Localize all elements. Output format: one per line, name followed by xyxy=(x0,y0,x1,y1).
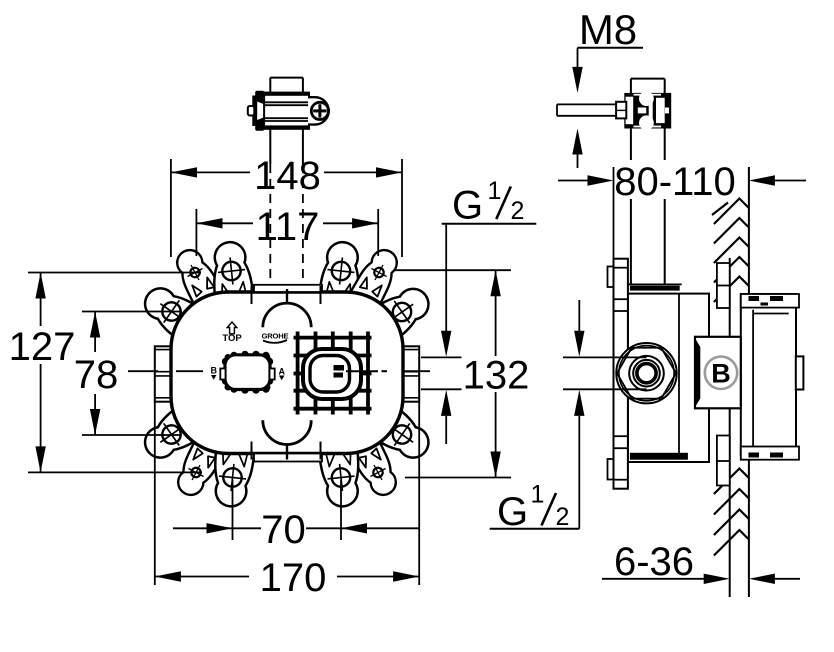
svg-text:148: 148 xyxy=(254,154,321,198)
top parting ticks xyxy=(251,286,253,304)
svg-text:6-36: 6-36 xyxy=(614,540,694,584)
svg-text:170: 170 xyxy=(260,556,327,600)
wall hatching bottom xyxy=(714,469,749,556)
supply pipe (front, above body) xyxy=(270,78,303,285)
G1/2 socket seen from side: nut and rings xyxy=(616,343,676,403)
supply pipe (side) xyxy=(630,79,632,284)
svg-text:1: 1 xyxy=(488,177,502,205)
body bottom detail xyxy=(630,453,688,460)
mounting tab L7 (bottom-left inner) xyxy=(210,440,257,509)
side lugs xyxy=(220,369,225,380)
ring leader line xyxy=(346,370,378,372)
spout ring outer xyxy=(303,349,361,399)
side socket G1/2 mini dimension xyxy=(563,300,647,529)
protective grid xyxy=(294,332,372,415)
TOP arrow symbol xyxy=(227,322,237,334)
pipe clamp (side) with M8 bolt xyxy=(557,91,671,130)
dim 170 xyxy=(155,402,419,600)
mounting tab S2 (small hole, top-right outer) xyxy=(351,244,404,306)
dim 6-36 xyxy=(602,540,800,584)
rough-in body outline xyxy=(171,292,403,454)
mounting tab L2 (top-right inner) xyxy=(317,240,364,309)
svg-text:2: 2 xyxy=(556,503,570,531)
svg-text:G: G xyxy=(452,184,483,228)
right G1/2 connection stub xyxy=(402,346,419,401)
box inner lines xyxy=(752,310,754,447)
side body main block xyxy=(628,294,709,462)
svg-text:A: A xyxy=(279,367,286,377)
svg-text:TOP: TOP xyxy=(222,333,242,344)
svg-text:GROHE: GROHE xyxy=(262,332,289,341)
dim 148 xyxy=(171,154,402,257)
svg-text:70: 70 xyxy=(261,508,306,552)
mounting tab L6 (right lower 45deg) xyxy=(361,397,437,467)
svg-text:117: 117 xyxy=(256,205,320,249)
wall tabs (plaster guard lugs) xyxy=(717,263,730,308)
label G 1/2 (top, for front stub) xyxy=(442,177,537,331)
wall finished-surface line xyxy=(729,258,731,597)
svg-text:M8: M8 xyxy=(579,6,637,53)
hidden pipe lines (dashed) xyxy=(269,164,271,285)
M8 nut xyxy=(616,102,626,119)
GROHE logo xyxy=(262,332,289,343)
control rosette (B/A feature) xyxy=(211,351,286,394)
svg-text:80-110: 80-110 xyxy=(614,160,736,204)
dim M8 xyxy=(572,6,643,168)
top lip xyxy=(254,285,322,292)
bottom parting ticks xyxy=(251,442,253,460)
mounting tab L1 (top-left inner) xyxy=(209,240,256,309)
mounting tab L4 (right upper 45deg) xyxy=(361,279,437,349)
right notch xyxy=(796,356,804,389)
pipe base xyxy=(628,283,682,285)
mounting tab L3 (left upper 45deg) xyxy=(136,279,212,349)
svg-text:132: 132 xyxy=(463,354,530,398)
mounting tab L5 (left lower 45deg) xyxy=(136,397,212,467)
dim 70 xyxy=(173,480,419,552)
mounting tab S4 (small hole, bottom-right outer) xyxy=(350,439,403,501)
clamp left bracket xyxy=(256,93,264,129)
circled B label xyxy=(705,357,737,389)
label G 1/2 (bottom, for side socket) xyxy=(490,480,580,534)
flange plate xyxy=(608,267,615,288)
bottom lip xyxy=(254,454,322,462)
bottom inner arch xyxy=(263,420,311,444)
B-box (function block) xyxy=(695,337,741,409)
phillips screw xyxy=(311,102,328,119)
spout ring inner xyxy=(310,356,350,393)
mounting tab S1 (small hole, top-left outer) xyxy=(170,244,223,306)
front stub G1/2 mini dimension xyxy=(421,331,462,444)
svg-text:B: B xyxy=(711,359,731,389)
left G1/2 connection stub xyxy=(155,346,172,401)
svg-text:127: 127 xyxy=(9,325,76,369)
recessed box behind wall xyxy=(741,294,796,455)
dim 80-110 xyxy=(558,160,806,259)
svg-text:1: 1 xyxy=(531,480,545,508)
mounting tab L8 (bottom-right inner) xyxy=(317,440,364,509)
mounting tab S3 (small hole, bottom-left outer) xyxy=(171,439,224,501)
dim 117 xyxy=(196,205,378,256)
pipe clamp (front) xyxy=(248,91,329,131)
svg-text:78: 78 xyxy=(74,353,119,397)
ring glyph xyxy=(334,365,345,371)
rosette bumps xyxy=(221,351,274,394)
top inner arch xyxy=(263,303,311,327)
dim 78 xyxy=(74,312,181,436)
svg-text:2: 2 xyxy=(511,197,525,225)
wall hatching top xyxy=(712,199,749,303)
inner vertical line of body xyxy=(678,294,680,453)
top screw band xyxy=(741,294,799,308)
svg-text:B: B xyxy=(211,366,218,376)
horizontal centerline dashes xyxy=(128,370,430,372)
dim 132 xyxy=(395,270,529,477)
wall back line / 80-110 extension xyxy=(748,167,750,597)
M8 threaded rod xyxy=(557,103,624,105)
clamp screw housing xyxy=(308,97,329,124)
dim 127 xyxy=(9,273,202,473)
bottom screw band xyxy=(741,447,799,460)
svg-text:G: G xyxy=(497,490,528,534)
